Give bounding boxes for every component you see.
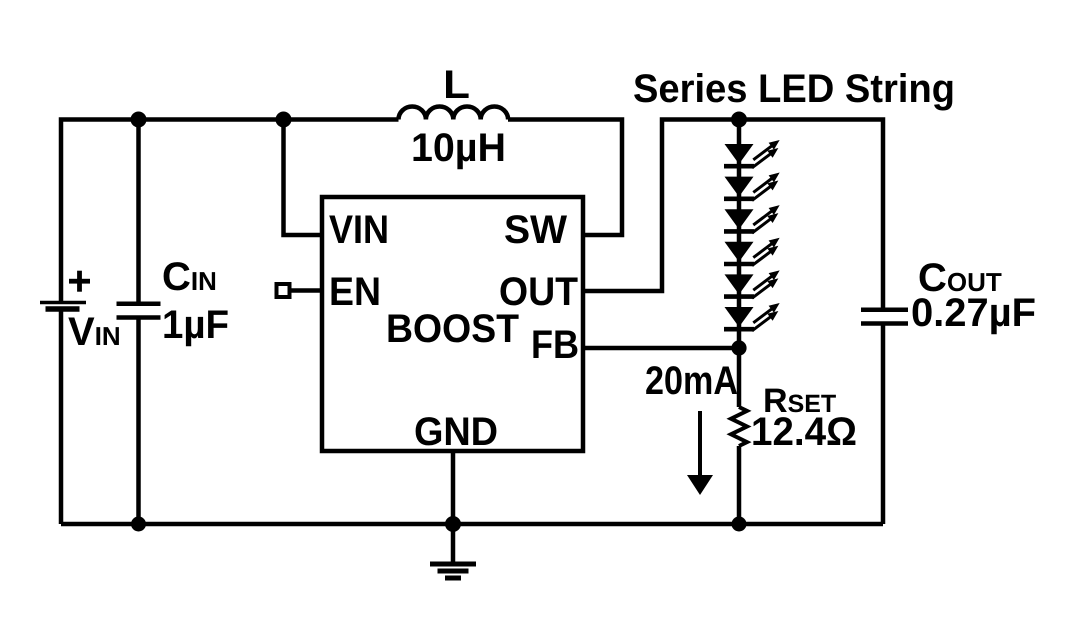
pin OUT [501,277,578,305]
resistor RSET 12.4ohm zigzag [731,407,747,446]
wire battery minus to bottom rail [59,311,64,524]
pin SW [505,215,567,243]
EN input square terminal [277,284,290,297]
junction node CIN top [131,112,147,128]
current arrow 20mA [646,366,737,495]
LED D4 [724,234,782,269]
wire VIN tap down to pin [284,120,323,236]
label 20mA [646,366,737,394]
pin GND [416,417,497,445]
battery minus plate (short thick) [46,306,80,312]
LED D2 [724,169,782,204]
junction node GND [445,516,461,532]
junction node CIN bottom [131,517,146,532]
wire CIN drop from top rail [136,120,141,304]
title Series LED String [634,73,952,111]
wire FB pin to LED string bottom [583,346,739,351]
battery VIN [40,271,119,345]
plus sign [69,279,90,284]
wire OUT pin up to top right rail to COUT [583,120,883,310]
wire RSET bottom to ground rail [737,446,742,524]
label VIN [68,318,119,346]
pin EN [332,278,379,306]
wire EN stub [291,288,322,293]
wire top rail from battery to inductor [61,120,399,303]
label COUT [920,263,1002,291]
junction node VIN tap [276,112,292,128]
value 10uH [414,133,504,169]
value 12.4ohm [753,417,855,445]
LED D6 [724,299,782,334]
inductor L1 10uH [399,107,509,120]
wire GND pin down [451,451,456,524]
IC name BOOST [389,314,519,342]
value 0.27uF [913,298,1035,334]
label CIN [164,262,216,290]
wire COUT bottom to rail [881,324,886,525]
junction node FB / LED bottom [731,340,746,355]
value 1uF [164,311,227,347]
label L [446,71,469,99]
pin VIN [329,216,386,244]
junction node LED string top [731,112,747,128]
battery plus plate (long) [40,301,86,305]
wire inductor to SW pin [508,120,622,236]
label RSET [765,389,836,413]
LED D3 [724,202,782,237]
wire bottom ground rail [61,522,883,527]
LED D1 [724,136,782,171]
capacitor COUT 0.27uF [861,263,1035,334]
ground symbol [430,524,476,578]
LED D5 [724,267,782,302]
capacitor CIN 1uF [117,262,228,346]
wire LED string vertical [737,120,742,408]
IC U1 BOOST converter [322,197,583,451]
junction node RSET bottom [732,517,747,532]
pin FB [533,331,577,359]
wire CIN bottom to rail [136,318,141,525]
